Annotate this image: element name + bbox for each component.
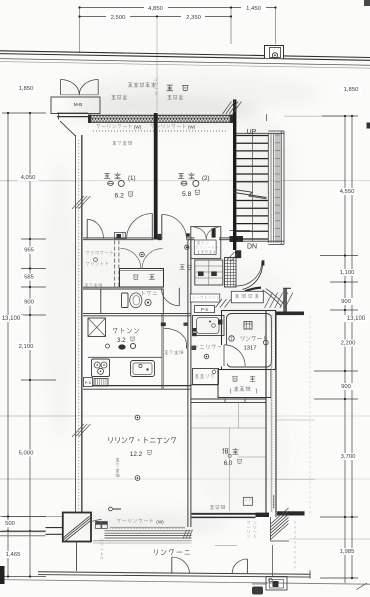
svg-text:1,850: 1,850 (19, 86, 34, 92)
svg-text:(2): (2) (202, 175, 210, 182)
svg-text:P-S: P-S (85, 381, 92, 385)
svg-text:1,465: 1,465 (6, 552, 21, 558)
svg-text:965: 965 (24, 248, 35, 254)
svg-text:P-S: P-S (201, 307, 208, 312)
svg-text:3.2: 3.2 (117, 337, 126, 344)
svg-text:4,850: 4,850 (148, 6, 163, 12)
svg-text:500: 500 (5, 521, 16, 527)
svg-text:): ) (256, 389, 258, 395)
svg-text:6.2: 6.2 (115, 193, 125, 200)
svg-text:3,700: 3,700 (341, 454, 356, 460)
svg-text:6.0: 6.0 (224, 460, 233, 467)
svg-text:4,550: 4,550 (340, 189, 355, 195)
svg-text:5,000: 5,000 (19, 451, 34, 457)
svg-text:4,050: 4,050 (21, 175, 36, 181)
svg-text:5.8: 5.8 (182, 191, 192, 198)
svg-text:2,100: 2,100 (19, 344, 34, 350)
svg-text:900: 900 (24, 300, 35, 306)
svg-text:585: 585 (24, 275, 35, 281)
svg-text:2,200: 2,200 (341, 341, 356, 347)
svg-text:900: 900 (341, 384, 352, 390)
svg-text:12.2: 12.2 (130, 451, 143, 458)
svg-text:1,985: 1,985 (340, 549, 355, 555)
svg-text:1317: 1317 (243, 346, 256, 352)
svg-text:2,350: 2,350 (186, 15, 201, 21)
svg-text:(W): (W) (134, 125, 142, 130)
svg-text:1,850: 1,850 (344, 87, 359, 93)
svg-text:(W): (W) (156, 520, 164, 525)
svg-text:1,100: 1,100 (340, 270, 355, 276)
svg-text:(W): (W) (188, 125, 196, 130)
svg-text:13,100: 13,100 (347, 316, 366, 322)
svg-text:(1): (1) (128, 175, 136, 182)
svg-text:13,100: 13,100 (2, 316, 21, 322)
svg-text:1,450: 1,450 (246, 6, 261, 12)
svg-text:900: 900 (341, 299, 352, 305)
svg-text:M-B: M-B (74, 102, 83, 107)
svg-text:2,500: 2,500 (111, 15, 126, 21)
svg-text:UP: UP (247, 129, 257, 136)
svg-text:DN: DN (247, 243, 257, 250)
svg-text:(: ( (230, 389, 232, 395)
